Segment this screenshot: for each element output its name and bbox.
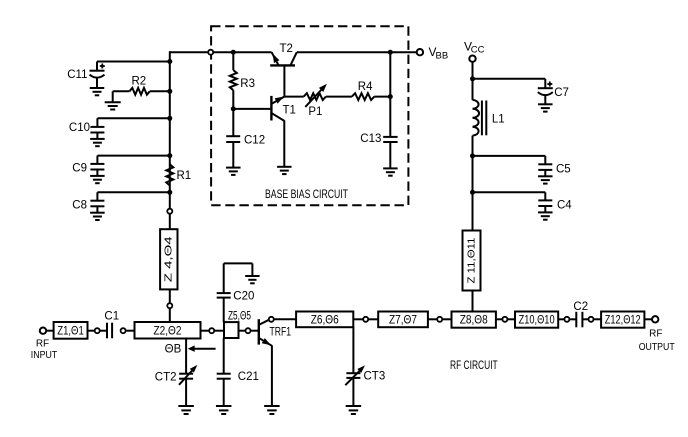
svg-text:C4: C4 — [557, 200, 572, 212]
node C7 branch — [470, 76, 475, 81]
svg-text:C11: C11 — [67, 69, 87, 81]
svg-text:RF: RF — [36, 338, 49, 349]
wire — [223, 379, 225, 406]
inductor L1 — [473, 100, 505, 136]
matching element Z7 — [378, 312, 428, 328]
wire — [582, 318, 588, 320]
ground — [264, 405, 280, 407]
wire — [326, 96, 352, 98]
svg-text:T2: T2 — [280, 43, 293, 55]
svg-text:ΘB: ΘB — [165, 344, 182, 356]
svg-text:C12: C12 — [244, 135, 265, 147]
node C4 branch — [470, 190, 475, 195]
node — [246, 328, 251, 333]
svg-text:C8: C8 — [72, 199, 87, 211]
wire — [214, 330, 224, 332]
wire — [374, 96, 390, 98]
capacitor C5 — [473, 156, 571, 184]
capacitor C7 — [473, 79, 569, 112]
trimmer capacitor CT2 — [155, 365, 198, 385]
potentiometer P1 — [304, 84, 327, 118]
svg-text:C1: C1 — [104, 311, 119, 323]
svg-text:RF: RF — [649, 328, 662, 339]
svg-text:R3: R3 — [240, 78, 255, 90]
svg-text:CT3: CT3 — [364, 371, 386, 383]
wire — [170, 51, 209, 53]
node TRF1 collector — [269, 317, 274, 322]
svg-text:OUTPUT: OUTPUT — [639, 342, 675, 353]
capacitor C21 — [217, 371, 259, 383]
svg-text:Z 4,Θ4: Z 4,Θ4 — [163, 236, 175, 282]
svg-text:Z8,Θ8: Z8,Θ8 — [460, 315, 488, 327]
wire — [46, 330, 53, 332]
svg-text:CC: CC — [471, 45, 485, 56]
svg-text:Z1,Θ1: Z1,Θ1 — [57, 326, 84, 338]
svg-text:Z10,Θ10: Z10,Θ10 — [519, 315, 555, 327]
ground return above C20 — [224, 263, 260, 283]
svg-text:BASE BIAS CIRCUIT: BASE BIAS CIRCUIT — [265, 187, 348, 201]
wire — [297, 51, 417, 53]
ground — [277, 166, 292, 168]
resistor R1 — [166, 164, 191, 185]
svg-text:CT2: CT2 — [155, 372, 177, 384]
node below Z4 — [167, 303, 172, 308]
svg-text:P1: P1 — [308, 106, 322, 118]
svg-text:RF CIRCUIT: RF CIRCUIT — [450, 360, 498, 372]
wire — [223, 338, 225, 374]
transistor T1 — [233, 96, 296, 121]
wire — [126, 330, 135, 332]
wire — [169, 51, 171, 209]
wire — [353, 318, 363, 320]
node C5 branch — [470, 153, 475, 158]
capacitor C12 — [226, 109, 265, 168]
ground — [216, 405, 232, 407]
svg-text:BB: BB — [436, 51, 449, 62]
capacitor C2 — [573, 301, 588, 327]
wire T1 emitter to ground — [283, 120, 285, 166]
terminal VCC — [464, 40, 485, 62]
wire — [88, 330, 95, 332]
ground — [346, 405, 362, 407]
wire — [472, 136, 474, 231]
node on bias box border — [208, 50, 213, 55]
capacitor C13 — [360, 52, 397, 168]
wire — [644, 318, 652, 320]
wire Z2 to CT2 — [185, 339, 187, 374]
wire — [223, 263, 225, 293]
svg-text:R4: R4 — [358, 81, 373, 93]
ground — [178, 405, 194, 407]
matching element Z12 — [601, 312, 644, 328]
wire — [496, 318, 503, 320]
svg-text:Z5,Θ5: Z5,Θ5 — [228, 310, 251, 322]
svg-text:Z2,Θ2: Z2,Θ2 — [154, 326, 182, 338]
resistor R4 — [352, 81, 374, 100]
transistor TRF1 — [259, 319, 291, 346]
matching element Z2 — [135, 322, 201, 339]
svg-text:C5: C5 — [556, 164, 571, 176]
node — [437, 317, 442, 322]
matching element Z6 — [296, 312, 353, 328]
wire — [368, 318, 378, 320]
wire — [507, 318, 515, 320]
svg-text:C7: C7 — [554, 87, 569, 99]
capacitor C10 — [69, 116, 172, 146]
svg-text:TRF1: TRF1 — [270, 327, 292, 339]
matching element Z4 — [160, 229, 177, 289]
svg-text:L1: L1 — [492, 114, 505, 126]
wire — [442, 318, 451, 320]
wire — [251, 330, 259, 332]
capacitor C4 — [473, 192, 573, 219]
wire — [569, 318, 576, 320]
capacitor C8 — [72, 190, 172, 220]
wire — [594, 318, 602, 320]
wire — [100, 330, 107, 332]
wire — [239, 330, 246, 332]
svg-text:INPUT: INPUT — [31, 350, 58, 361]
wire — [169, 308, 171, 322]
matching element Z5 — [224, 310, 251, 338]
wire — [352, 378, 354, 406]
node — [209, 328, 214, 333]
matching element Z8 — [452, 312, 496, 328]
node R3/C12/T1 base — [231, 106, 236, 111]
node — [121, 328, 126, 333]
wire — [169, 214, 171, 230]
resistor R3 — [230, 50, 255, 109]
svg-text:R2: R2 — [132, 76, 147, 88]
electrical length label ThetaB with arrow — [165, 344, 216, 356]
terminal RF INPUT — [31, 328, 58, 361]
node bias top right — [388, 50, 393, 55]
wire — [558, 318, 564, 320]
svg-text:T1: T1 — [283, 105, 296, 117]
svg-text:C10: C10 — [69, 122, 90, 134]
svg-text:Z12,Θ12: Z12,Θ12 — [605, 315, 641, 327]
capacitor C9 — [72, 153, 172, 183]
svg-text:Z 11,Θ11: Z 11,Θ11 — [465, 237, 477, 283]
node — [589, 317, 594, 322]
node R4/C13 — [388, 94, 393, 99]
node — [363, 317, 368, 322]
svg-text:Z7,Θ7: Z7,Θ7 — [389, 314, 417, 326]
wire Z6 to CT3 — [352, 327, 354, 373]
svg-text:C9: C9 — [72, 163, 87, 175]
wire — [185, 379, 187, 406]
wire — [223, 298, 225, 323]
node — [95, 328, 100, 333]
wire — [472, 291, 474, 312]
svg-text:C20: C20 — [233, 290, 254, 302]
node above Z4 — [167, 209, 172, 214]
wire — [201, 330, 210, 332]
trimmer capacitor CT3 — [345, 365, 385, 385]
wire — [428, 318, 437, 320]
transistor T2 — [270, 43, 297, 97]
wire TRF1 emitter to ground — [271, 345, 273, 406]
capacitor C20 — [217, 290, 255, 302]
ground — [105, 101, 121, 103]
svg-text:C2: C2 — [573, 301, 588, 313]
ground — [226, 167, 241, 169]
svg-text:R1: R1 — [177, 170, 192, 182]
wire — [472, 62, 474, 100]
node — [502, 317, 507, 322]
terminal VBB — [417, 45, 448, 62]
svg-text:C21: C21 — [238, 371, 259, 383]
ground — [383, 167, 398, 169]
capacitor C11 — [67, 59, 172, 95]
capacitor C1 — [104, 311, 119, 339]
matching element Z10 — [515, 312, 558, 328]
base bias circuit enclosure — [211, 26, 408, 205]
wire — [284, 96, 303, 98]
matching element Z1 — [54, 322, 88, 339]
wire — [274, 318, 296, 320]
resistor R2 — [113, 76, 173, 103]
terminal RF OUTPUT — [639, 316, 675, 353]
svg-text:Z6,Θ6: Z6,Θ6 — [311, 314, 339, 326]
node — [564, 317, 569, 322]
svg-text:C13: C13 — [360, 133, 381, 145]
matching element Z11 — [463, 231, 481, 291]
wire — [169, 289, 171, 303]
